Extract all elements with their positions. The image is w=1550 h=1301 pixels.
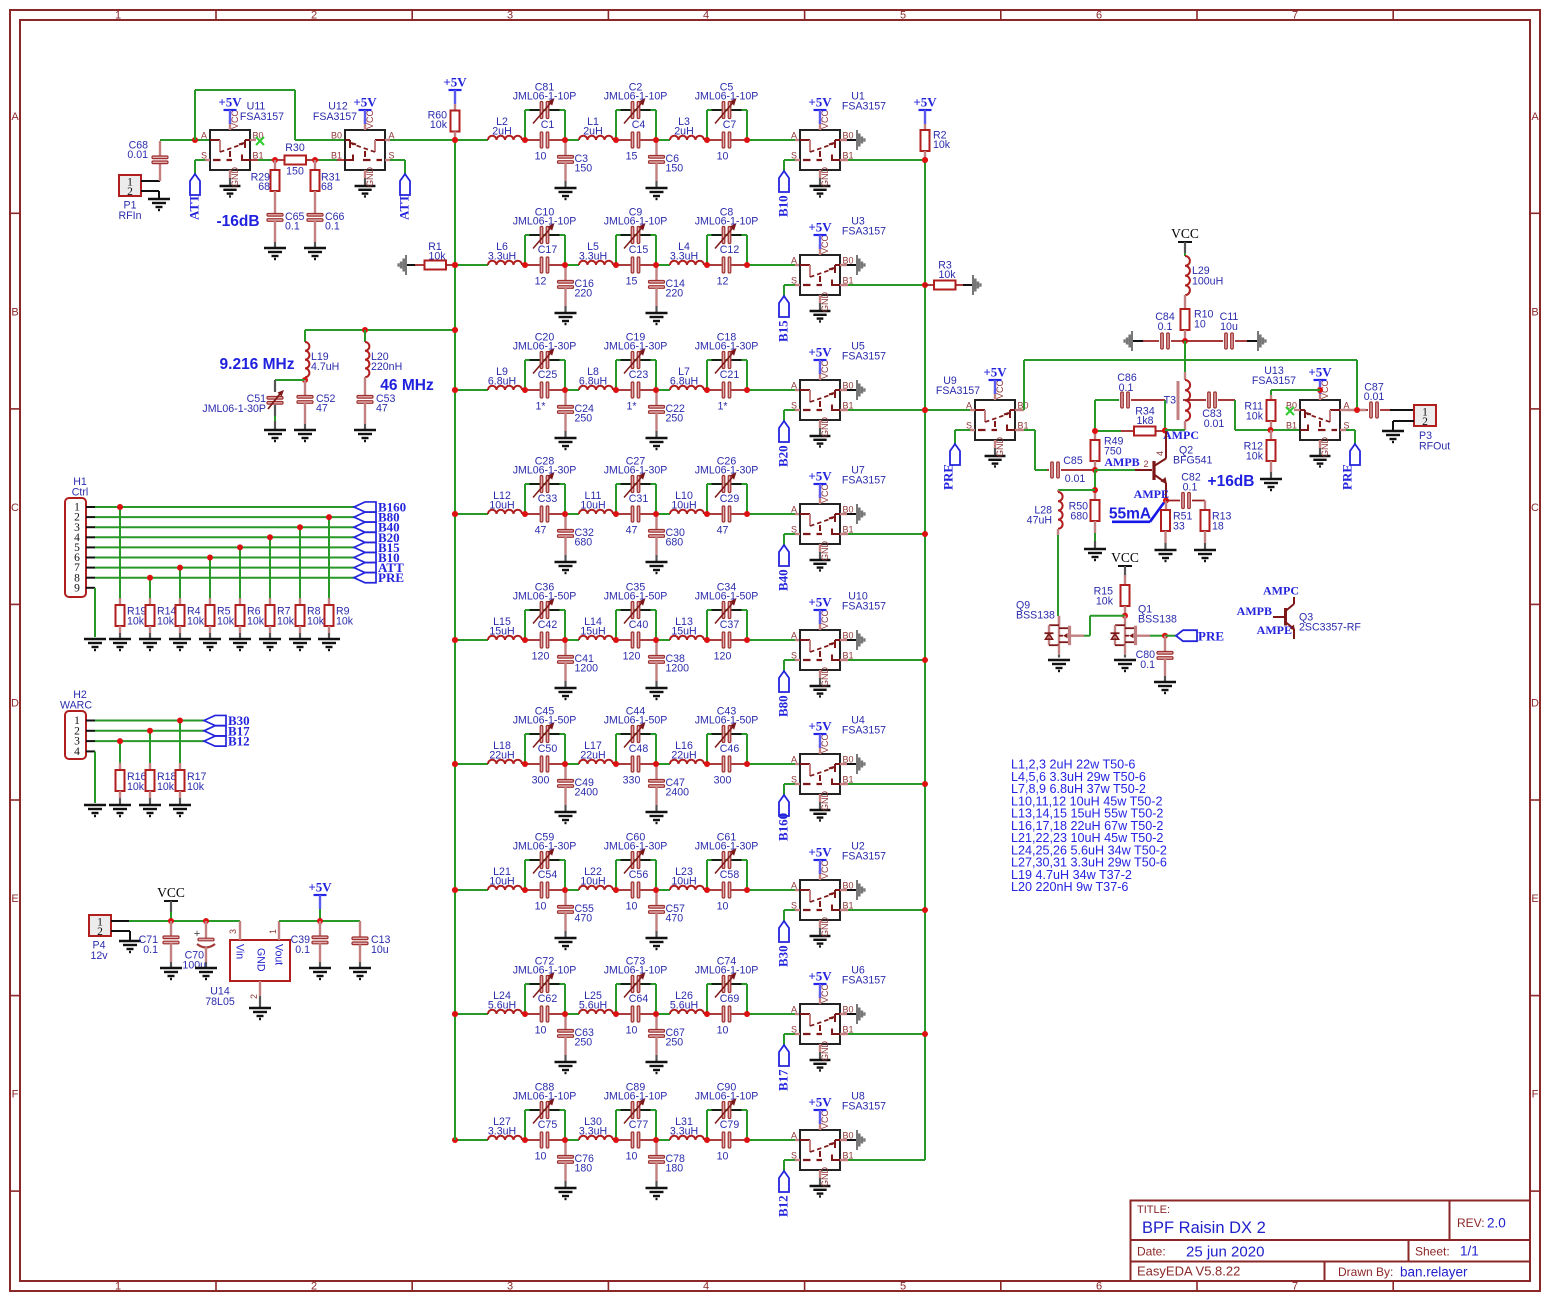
resistor R60 10k — [428, 75, 468, 141]
inductor L19 4.7uH — [305, 342, 339, 377]
wire H1 pin5 — [86, 546, 354, 548]
svg-text:150: 150 — [575, 163, 593, 175]
node R8 top — [297, 524, 303, 530]
svg-text:JML06-1-50P: JML06-1-50P — [695, 591, 759, 603]
resistor R51 33 — [1161, 501, 1193, 551]
transformer T3 — [1164, 380, 1190, 430]
capacitor C11 10u — [1185, 311, 1257, 349]
svg-text:0.1: 0.1 — [1183, 482, 1198, 494]
capacitor C67 250 (shunt) — [649, 1014, 686, 1062]
pin 6 H1 — [74, 552, 80, 564]
resistor R8 10k — [296, 527, 325, 639]
net flag PRE (Q1) — [1165, 629, 1224, 644]
svg-text:47: 47 — [316, 403, 328, 415]
wire U11.B1 to R30 — [250, 159, 285, 161]
net port B20 — [354, 530, 400, 545]
ground (shunt C30) — [646, 562, 668, 573]
svg-text:+5V: +5V — [808, 845, 832, 860]
svg-text:6.8uH: 6.8uH — [670, 376, 698, 388]
analog switch U4 FSA3157 — [791, 715, 886, 821]
node R17 top — [177, 718, 183, 724]
svg-text:+5V: +5V — [1308, 365, 1332, 380]
svg-text:15: 15 — [626, 151, 638, 163]
B0 stub arrow U7 — [840, 504, 866, 524]
svg-text:JML06-1-30P: JML06-1-30P — [604, 841, 668, 853]
wire U12.A to bus — [385, 139, 455, 141]
svg-text:B12: B12 — [228, 734, 250, 749]
svg-text:3: 3 — [507, 1281, 513, 1293]
capacitor C58 10 (series) — [717, 869, 740, 913]
node R15/Q1 — [1122, 613, 1128, 619]
svg-text:JML06-1-30P: JML06-1-30P — [604, 465, 668, 477]
svg-text:10k: 10k — [1246, 411, 1264, 423]
trimmer capacitor C19 JML06-1-30P — [604, 332, 668, 374]
svg-text:2: 2 — [97, 926, 103, 938]
no-connect X U13.B0 — [1286, 407, 1300, 415]
wire VCC to T3 — [1184, 341, 1186, 380]
svg-text:A: A — [791, 505, 797, 515]
svg-text:VCC: VCC — [1171, 226, 1199, 241]
trimmer capacitor C34 JML06-1-50P — [695, 582, 759, 624]
wire row U8 input chain — [455, 1110, 800, 1140]
net flag B30 — [776, 910, 801, 967]
ground (shunt C47) — [646, 812, 668, 823]
svg-text:330: 330 — [623, 775, 641, 787]
svg-text:VCC: VCC — [995, 379, 1005, 399]
svg-text:FSA3157: FSA3157 — [936, 385, 980, 397]
wire trap top — [305, 330, 455, 342]
svg-text:C58: C58 — [720, 869, 740, 881]
svg-text:GND: GND — [820, 292, 830, 313]
trimmer capacitor C72 JML06-1-10P — [513, 956, 577, 998]
trimmer capacitor C10 JML06-1-10P — [513, 207, 577, 249]
wire H2 pin2 — [86, 730, 204, 732]
svg-text:78L05: 78L05 — [205, 996, 235, 1008]
svg-text:-16dB: -16dB — [216, 213, 259, 230]
svg-text:FSA3157: FSA3157 — [842, 101, 886, 113]
node R2 output — [922, 157, 928, 163]
pin 8 H1 — [74, 572, 80, 584]
trimmer capacitor C43 JML06-1-50P — [695, 706, 759, 748]
svg-text:47: 47 — [717, 525, 729, 537]
wire P3.2 to ground — [1393, 421, 1414, 431]
svg-text:D: D — [11, 698, 19, 710]
ground (shunt C63) — [555, 1062, 577, 1073]
ground (R50) — [1084, 549, 1106, 560]
inductor L4 3.3uH — [670, 241, 704, 265]
svg-text:A: A — [791, 256, 797, 266]
capacitor C64 10 (series) — [626, 993, 649, 1037]
net port B40 — [354, 520, 400, 535]
svg-text:C64: C64 — [629, 993, 649, 1005]
svg-text:2.0: 2.0 — [1487, 1216, 1506, 1231]
svg-text:300: 300 — [714, 775, 732, 787]
svg-text:C69: C69 — [720, 993, 740, 1005]
wire H1 pin9 to ground — [86, 588, 95, 637]
svg-text:JML06-1-30P: JML06-1-30P — [513, 841, 577, 853]
capacitor C55 470 (shunt) — [558, 890, 595, 938]
svg-text:C17: C17 — [538, 244, 558, 256]
svg-text:6.8uH: 6.8uH — [579, 376, 607, 388]
svg-text:0.1: 0.1 — [325, 221, 340, 233]
svg-text:220: 220 — [666, 288, 684, 300]
wire R30 to U12.B1 — [306, 159, 345, 161]
B0 stub arrow U1 — [840, 130, 866, 150]
svg-text:JML06-1-10P: JML06-1-10P — [513, 1091, 577, 1103]
svg-text:C85: C85 — [1063, 455, 1083, 467]
svg-text:0.1: 0.1 — [295, 944, 310, 956]
svg-text:15uH: 15uH — [671, 626, 696, 638]
node VCC rail — [168, 918, 174, 924]
inductor L8 6.8uH — [579, 366, 613, 390]
resistor R12 10k — [1244, 430, 1276, 479]
svg-text:10k: 10k — [933, 139, 951, 151]
svg-text:JML06-1-50P: JML06-1-50P — [513, 715, 577, 727]
wire H1 pin6 — [86, 557, 354, 559]
svg-text:B17: B17 — [776, 1069, 791, 1091]
svg-text:4: 4 — [703, 10, 709, 22]
ground (C52) — [294, 430, 316, 441]
resistor R49 750 — [1091, 400, 1124, 469]
pin 4 H2 — [74, 746, 80, 758]
svg-text:B15: B15 — [776, 320, 791, 342]
svg-text:1k8: 1k8 — [1136, 415, 1153, 427]
svg-text:6.8uH: 6.8uH — [488, 376, 516, 388]
analog switch U8 FSA3157 — [791, 1091, 886, 1197]
analog switch U10 FSA3157 — [791, 591, 886, 697]
svg-text:FSA3157: FSA3157 — [842, 975, 886, 987]
capacitor C65 0.1 — [267, 191, 305, 248]
ground (R51) — [1155, 550, 1177, 561]
svg-text:7: 7 — [1292, 10, 1298, 22]
capacitor C83 0.01 — [1202, 392, 1235, 430]
svg-text:+5V: +5V — [308, 880, 332, 895]
svg-text:10k: 10k — [157, 781, 175, 793]
wire U9.B0 to U13.A — [1015, 360, 1357, 410]
trimmer capacitor C90 JML06-1-10P — [695, 1082, 759, 1124]
svg-text:C50: C50 — [538, 743, 558, 755]
node VCC filter — [1182, 338, 1188, 344]
svg-text:C1: C1 — [541, 119, 555, 131]
svg-text:JML06-1-30P: JML06-1-30P — [513, 341, 577, 353]
svg-text:4: 4 — [74, 746, 80, 758]
svg-text:2: 2 — [127, 186, 133, 198]
svg-text:BSS138: BSS138 — [1138, 614, 1177, 626]
inductor L16 22uH — [670, 740, 704, 764]
capacitor C48 330 (series) — [623, 743, 649, 787]
svg-text:2400: 2400 — [575, 787, 599, 799]
svg-text:C15: C15 — [629, 244, 649, 256]
ground (shunt C57) — [646, 938, 668, 949]
inductor L25 5.6uH — [579, 990, 613, 1014]
svg-text:GND: GND — [820, 1041, 830, 1062]
svg-text:TITLE:: TITLE: — [1137, 1204, 1170, 1216]
svg-text:47uH: 47uH — [1027, 515, 1052, 527]
resistor R3 10k (to arrow) — [925, 260, 982, 296]
connector P3 RFOut — [1414, 405, 1450, 453]
svg-text:10: 10 — [717, 1025, 729, 1037]
svg-text:2: 2 — [1422, 416, 1428, 428]
trimmer capacitor C28 JML06-1-30P — [513, 456, 577, 498]
svg-text:1200: 1200 — [575, 663, 599, 675]
trimmer capacitor C45 JML06-1-50P — [513, 706, 577, 748]
svg-text:GND: GND — [820, 1167, 830, 1188]
svg-text:+5V: +5V — [808, 469, 832, 484]
svg-text:B40: B40 — [776, 569, 791, 591]
svg-text:AMPC: AMPC — [1263, 584, 1299, 598]
ground (shunt C22) — [646, 438, 668, 449]
svg-text:FSA3157: FSA3157 — [240, 111, 284, 123]
ground (C66) — [304, 248, 326, 259]
svg-text:VCC: VCC — [820, 1109, 830, 1129]
capacitor C86 0.1 — [1095, 372, 1165, 408]
svg-text:10: 10 — [626, 1025, 638, 1037]
svg-text:10uH: 10uH — [580, 500, 605, 512]
svg-text:B: B — [1531, 307, 1538, 319]
svg-text:JML06-1-10P: JML06-1-10P — [695, 965, 759, 977]
label 9.216 MHz — [220, 356, 295, 373]
svg-text:+5V: +5V — [808, 95, 832, 110]
label +16dB — [1208, 473, 1255, 490]
svg-text:Drawn By:: Drawn By: — [1338, 1265, 1393, 1279]
trimmer capacitor C27 JML06-1-30P — [604, 456, 668, 498]
capacitor C68 0.01 — [127, 140, 168, 182]
ground (C65) — [264, 248, 286, 259]
svg-text:10k: 10k — [1096, 596, 1114, 608]
trimmer capacitor C44 JML06-1-50P — [604, 706, 668, 748]
capacitor C6 150 (shunt) — [649, 140, 684, 188]
svg-text:100uH: 100uH — [1192, 276, 1223, 288]
svg-text:+5V: +5V — [913, 95, 937, 110]
capacitor C76 180 (shunt) — [558, 1140, 595, 1188]
svg-text:10k: 10k — [277, 616, 295, 628]
wire T3 tap to C83 — [1183, 399, 1206, 401]
svg-text:A: A — [791, 755, 797, 765]
trimmer capacitor C2 JML06-1-10P — [604, 82, 668, 124]
svg-text:PRE: PRE — [1198, 629, 1224, 644]
capacitor C37 120 (series) — [714, 619, 740, 663]
svg-text:JML06-1-50P: JML06-1-50P — [604, 715, 668, 727]
trimmer capacitor C5 JML06-1-10P — [695, 82, 759, 124]
svg-text:10: 10 — [535, 901, 547, 913]
svg-text:C: C — [1531, 502, 1539, 514]
svg-text:Vin: Vin — [234, 944, 246, 959]
svg-text:F: F — [12, 1089, 19, 1101]
svg-text:+5V: +5V — [983, 365, 1007, 380]
wire U9.B1 to C85 — [1015, 430, 1047, 470]
ground (R16) — [109, 805, 131, 816]
junction dots row U1 — [452, 137, 750, 143]
wire H1 pin4 — [86, 536, 354, 538]
pin 5 H1 — [74, 542, 80, 554]
svg-text:6: 6 — [1096, 10, 1102, 22]
svg-text:10uH: 10uH — [671, 500, 696, 512]
wire C86 to AMPC — [1164, 400, 1166, 430]
transistor Q9 BSS138 — [1016, 535, 1084, 655]
resistor R2 10k (pullup) — [913, 95, 950, 161]
pin 3 H2 — [74, 736, 80, 748]
capacitor C1 10 (series) — [535, 119, 555, 163]
label 55mA — [1109, 503, 1164, 523]
label 46 MHz — [380, 377, 434, 394]
ground (shunt C3) — [555, 188, 577, 199]
svg-text:B80: B80 — [776, 695, 791, 717]
svg-text:180: 180 — [666, 1163, 684, 1175]
svg-text:JML06-1-30P: JML06-1-30P — [695, 341, 759, 353]
inductor L26 5.6uH — [670, 990, 704, 1014]
capacitor C85 0.01 — [1047, 455, 1095, 485]
analog switch U7 FSA3157 — [791, 465, 886, 571]
svg-text:AMPB: AMPB — [1104, 455, 1139, 469]
net flag ATT (U11) — [187, 160, 211, 220]
svg-text:A: A — [791, 381, 797, 391]
svg-text:0.01: 0.01 — [1065, 473, 1086, 485]
svg-text:GND: GND — [995, 437, 1005, 458]
svg-text:4: 4 — [703, 1281, 709, 1293]
capacitor C15 15 (series) — [626, 244, 649, 288]
capacitor C22 250 (shunt) — [649, 390, 686, 438]
svg-text:68: 68 — [321, 181, 333, 193]
ground (shunt C38) — [646, 688, 668, 699]
svg-text:120: 120 — [532, 651, 550, 663]
inductor L28 47uH — [1027, 490, 1095, 535]
wire row U1 input chain — [455, 110, 800, 140]
svg-text:PRE: PRE — [378, 570, 404, 585]
resistor R1 10k (row2 bias) — [397, 241, 455, 275]
net flag B17 — [776, 1034, 801, 1091]
transistor Q2 BFG541 — [1154, 431, 1213, 500]
capacitor C17 12 (series) — [535, 244, 558, 288]
svg-text:GND: GND — [820, 541, 830, 562]
resistor R34 1k8 — [1095, 406, 1165, 436]
wire row U3 input chain — [455, 235, 800, 265]
node input junction — [192, 137, 198, 143]
svg-text:BFG541: BFG541 — [1173, 455, 1213, 467]
svg-text:VCC: VCC — [820, 983, 830, 1003]
svg-text:10k: 10k — [336, 616, 354, 628]
svg-text:3.3uH: 3.3uH — [488, 1126, 516, 1138]
svg-text:F: F — [1532, 1089, 1539, 1101]
svg-text:C46: C46 — [720, 743, 740, 755]
inductor notes text block — [1011, 758, 1167, 895]
svg-text:C31: C31 — [629, 493, 649, 505]
svg-text:10k: 10k — [307, 616, 325, 628]
capacitor C69 10 (series) — [717, 993, 740, 1037]
net port B12 — [204, 734, 250, 749]
svg-text:C37: C37 — [720, 619, 740, 631]
svg-text:12v: 12v — [90, 950, 108, 962]
capacitor C25 1* (series) — [535, 369, 557, 413]
svg-text:25 jun 2020: 25 jun 2020 — [1186, 1244, 1264, 1261]
capacitor C49 2400 (shunt) — [558, 764, 599, 812]
svg-text:10k: 10k — [428, 251, 446, 263]
svg-text:WARC: WARC — [60, 700, 92, 712]
svg-text:C79: C79 — [720, 1119, 740, 1131]
svg-text:Sheet:: Sheet: — [1415, 1245, 1450, 1259]
ground (shunt C49) — [555, 812, 577, 823]
svg-text:B: B — [11, 307, 18, 319]
capacitor C4 15 (series) — [626, 119, 646, 163]
resistor R11 10k — [1244, 390, 1320, 430]
svg-text:JML06-1-10P: JML06-1-10P — [513, 91, 577, 103]
svg-text:VCC: VCC — [230, 109, 240, 129]
wire H1 pin7 — [86, 567, 354, 569]
svg-text:680: 680 — [575, 537, 593, 549]
node R60 output — [452, 137, 458, 143]
net port B10 — [354, 550, 400, 565]
resistor R9 10k — [325, 517, 354, 639]
svg-text:10uH: 10uH — [580, 876, 605, 888]
wire Q9 drain to node — [1084, 616, 1125, 636]
capacitor C33 47 (series) — [535, 493, 558, 537]
svg-text:GND: GND — [820, 917, 830, 938]
svg-text:FSA3157: FSA3157 — [842, 725, 886, 737]
svg-text:RFIn: RFIn — [119, 210, 142, 222]
wire H1 pin8 — [86, 577, 354, 579]
wire U6 B1 to bus — [840, 1033, 925, 1035]
net port B160 — [354, 500, 406, 515]
svg-text:10k: 10k — [187, 781, 205, 793]
inductor L9 6.8uH — [488, 366, 522, 390]
capacitor C84 0.1 — [1133, 311, 1185, 349]
svg-text:JML06-1-50P: JML06-1-50P — [695, 715, 759, 727]
inductor L27 3.3uH — [488, 1116, 522, 1140]
trimmer capacitor C9 JML06-1-10P — [604, 207, 668, 249]
pin 2 H2 — [74, 725, 80, 737]
wire AMPC to T3 bottom — [1165, 429, 1185, 431]
regulator U14 78L05 — [205, 921, 290, 1008]
trimmer capacitor C59 JML06-1-30P — [513, 832, 577, 874]
svg-text:15uH: 15uH — [489, 626, 514, 638]
pin 4 H1 — [74, 532, 80, 544]
inductor L24 5.6uH — [488, 990, 522, 1014]
svg-text:1: 1 — [115, 1281, 121, 1293]
svg-text:C56: C56 — [629, 869, 649, 881]
svg-text:47: 47 — [626, 525, 638, 537]
svg-text:AMPE: AMPE — [1257, 623, 1292, 637]
ground (C39) — [309, 968, 331, 979]
wire row U7 input chain — [455, 484, 800, 514]
svg-text:470: 470 — [666, 913, 684, 925]
ground (C51) — [264, 430, 286, 441]
node AMPE — [1134, 487, 1169, 504]
node U9.A tap — [922, 407, 928, 413]
svg-text:JML06-1-10P: JML06-1-10P — [513, 216, 577, 228]
svg-text:FSA3157: FSA3157 — [842, 351, 886, 363]
wire Q1 out — [1150, 635, 1165, 637]
net port PRE — [354, 570, 404, 585]
svg-text:C77: C77 — [629, 1119, 649, 1131]
svg-text:470: 470 — [575, 913, 593, 925]
svg-text:2: 2 — [1143, 459, 1148, 469]
capacitor C53 47 — [357, 377, 396, 430]
svg-text:5: 5 — [900, 10, 906, 22]
ground (R12) — [1260, 479, 1282, 490]
capacitor C24 250 (shunt) — [558, 390, 595, 438]
capacitor C87 0.01 — [1364, 382, 1415, 419]
capacitor C54 10 (series) — [535, 869, 558, 913]
inductor L2 2uH — [488, 116, 522, 140]
wire row U2 input chain — [455, 860, 800, 890]
svg-text:GND: GND — [365, 167, 375, 188]
B0 stub arrow U6 — [840, 1004, 866, 1024]
analog switch U5 FSA3157 — [791, 341, 886, 447]
wire C83 to B1 line — [1235, 400, 1300, 430]
svg-text:1200: 1200 — [666, 663, 690, 675]
no-connect X U11.B0 — [250, 137, 264, 145]
connector H1 Ctrl — [65, 476, 88, 597]
svg-text:JML06-1-10P: JML06-1-10P — [513, 965, 577, 977]
